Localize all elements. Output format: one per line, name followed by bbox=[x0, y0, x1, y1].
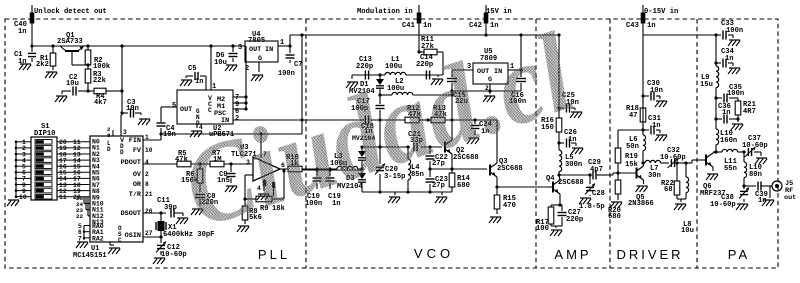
wire Q6 collector node bbox=[713, 150, 718, 153]
capacitor C18 bbox=[361, 116, 374, 137]
svg-text:R19: R19 bbox=[625, 153, 638, 161]
wire unlock detect vertical bbox=[31, 5, 33, 46]
resistor R19 bbox=[615, 144, 638, 173]
wire 0-15V vertical bbox=[642, 5, 644, 35]
svg-text:OSIN: OSIN bbox=[125, 232, 141, 240]
ground driver output bbox=[674, 204, 686, 210]
connector J5 RF out bbox=[772, 180, 796, 202]
svg-text:C43: C43 bbox=[626, 22, 639, 30]
svg-text:1n: 1n bbox=[652, 122, 661, 130]
inductor L5 bbox=[559, 143, 582, 175]
wire R5 to R7 bbox=[191, 162, 210, 165]
transistor Q1 2SA733 bbox=[57, 32, 88, 65]
svg-text:C28: C28 bbox=[592, 190, 605, 198]
resistor R6 bbox=[181, 164, 203, 192]
wire opamp output bbox=[280, 169, 288, 171]
ground right of C30 bbox=[655, 101, 667, 107]
ground right of C11 bbox=[176, 218, 188, 224]
svg-text:4R7: 4R7 bbox=[743, 108, 756, 116]
svg-text:10u: 10u bbox=[66, 80, 79, 88]
ground below R21 bbox=[731, 119, 743, 130]
ground below R15 bbox=[489, 217, 501, 223]
resistor R21 bbox=[735, 101, 756, 119]
wire Q4 collector node bbox=[557, 173, 590, 176]
inductor L9 bbox=[700, 63, 719, 98]
ground right of C31 bbox=[655, 135, 667, 141]
wire 9V bottom bus bbox=[450, 89, 521, 92]
svg-text:OR: OR bbox=[133, 181, 142, 189]
ground below R8 bbox=[237, 226, 249, 232]
resistor R15 bbox=[494, 187, 516, 214]
svg-text:G: G bbox=[258, 55, 262, 63]
ground below U1 bbox=[108, 242, 120, 254]
svg-text:Modulation in: Modulation in bbox=[357, 8, 413, 16]
wire 15V drop to FIN line bbox=[300, 35, 303, 134]
svg-text:8: 8 bbox=[145, 181, 149, 188]
svg-text:T/R: T/R bbox=[129, 191, 142, 199]
svg-text:FV: FV bbox=[133, 147, 142, 155]
capacitor C21 bbox=[408, 131, 423, 152]
ground below C8 bbox=[191, 209, 203, 215]
svg-text:26: 26 bbox=[145, 208, 153, 215]
svg-text:C7: C7 bbox=[294, 61, 302, 69]
svg-text:47: 47 bbox=[629, 112, 638, 120]
section label PA bbox=[728, 247, 750, 262]
wire emitter line bbox=[428, 167, 487, 170]
svg-text:21: 21 bbox=[145, 191, 153, 198]
transistor Q5 2N3866 bbox=[616, 163, 653, 208]
svg-text:1n: 1n bbox=[647, 22, 656, 30]
svg-text:FIN: FIN bbox=[129, 137, 141, 145]
capacitor C24 bbox=[471, 120, 493, 136]
wire Q5 emitter bbox=[643, 180, 645, 184]
wire R19 top bbox=[618, 130, 643, 144]
svg-text:1.8-5p: 1.8-5p bbox=[579, 203, 605, 211]
svg-text:55n: 55n bbox=[724, 165, 737, 173]
svg-text:OV: OV bbox=[133, 171, 142, 179]
svg-text:0-15V in: 0-15V in bbox=[644, 8, 678, 16]
svg-text:C42: C42 bbox=[469, 22, 482, 30]
wire OSIN bbox=[143, 235, 163, 238]
ground below C28 bbox=[579, 195, 591, 204]
capacitor C3 bbox=[122, 99, 141, 118]
capacitor C26 bbox=[557, 129, 576, 148]
wire amp emitter gnd bbox=[551, 224, 562, 228]
capacitor C16 bbox=[509, 70, 526, 106]
svg-text:OUT: OUT bbox=[249, 46, 261, 54]
ground below U4 bbox=[251, 75, 263, 81]
wire R3 to R4 node bbox=[86, 89, 89, 92]
ground right of C33 bbox=[728, 40, 740, 46]
wire U4 ground pin bbox=[258, 62, 260, 72]
resistor R11 bbox=[417, 36, 443, 75]
svg-text:C: C bbox=[118, 237, 122, 244]
wire Q2 base line bbox=[360, 120, 442, 149]
ground below C38 bbox=[736, 204, 748, 210]
capacitor C11 bbox=[157, 197, 183, 218]
svg-text:8: 8 bbox=[107, 132, 111, 139]
capacitor D6 10u bbox=[214, 44, 238, 67]
op-amp U3 TLC271 bbox=[231, 132, 285, 192]
ground right of C14 bbox=[431, 79, 443, 85]
wire 9V to VCO bbox=[451, 91, 453, 120]
section label PLL bbox=[258, 247, 290, 262]
ground below S1 bbox=[7, 200, 19, 206]
resistor R10 bbox=[286, 154, 302, 172]
resistor R3 bbox=[85, 69, 106, 91]
section label VCO bbox=[414, 246, 454, 261]
wire L9 bottom node bbox=[714, 96, 717, 120]
capacitor C41 bbox=[402, 13, 432, 31]
capacitor C17 bbox=[351, 93, 385, 121]
opamp pin4 ground bbox=[257, 179, 275, 200]
wire DSOUT bbox=[143, 211, 166, 214]
svg-text:1: 1 bbox=[212, 83, 216, 91]
ground below R1 bbox=[45, 72, 57, 78]
inductor L11 bbox=[716, 149, 744, 173]
wire pa output node bbox=[744, 185, 756, 187]
svg-text:22k: 22k bbox=[93, 77, 107, 85]
wire U2 OUT pin5 bbox=[161, 107, 177, 122]
capacitor C7 bbox=[278, 46, 302, 78]
ground below C24 bbox=[467, 138, 479, 144]
svg-text:out: out bbox=[784, 194, 796, 202]
svg-text:2SC688: 2SC688 bbox=[497, 165, 523, 173]
ground below R20 bbox=[610, 202, 622, 208]
varactor D2 MV2104 bbox=[352, 135, 376, 171]
svg-text:100n: 100n bbox=[726, 27, 743, 35]
svg-text:5: 5 bbox=[172, 102, 176, 110]
dashed section divider DRIVER/PA bbox=[696, 19, 698, 268]
resistor R20 bbox=[608, 173, 621, 221]
capacitor C29 bbox=[588, 159, 605, 180]
svg-text:220p: 220p bbox=[566, 216, 583, 224]
ground below U5 bbox=[483, 96, 495, 102]
svg-text:IN: IN bbox=[265, 46, 273, 54]
svg-text:680: 680 bbox=[608, 213, 621, 221]
ground Q6 emitter bbox=[706, 174, 718, 180]
label 15V in bbox=[486, 8, 512, 16]
resistor R4 bbox=[88, 88, 122, 107]
inductor L6 bbox=[626, 130, 646, 163]
wire VCO pickup to U1 FIN bbox=[143, 132, 302, 140]
wire driver supply drop bbox=[641, 35, 644, 132]
capacitor C35 bbox=[716, 84, 744, 103]
resistor R9 feedback bbox=[245, 169, 286, 213]
dashed section divider VCO/AMP bbox=[535, 19, 537, 268]
capacitor C33 bbox=[716, 20, 743, 40]
svg-text:10-60p: 10-60p bbox=[742, 142, 768, 150]
svg-text:160n: 160n bbox=[720, 137, 737, 145]
inductor L10 160n bbox=[716, 119, 737, 152]
resistor R13 bbox=[431, 105, 448, 123]
wire opamp inverting input bbox=[243, 175, 253, 201]
prescaler U2 uPB571 bbox=[172, 83, 239, 139]
varactor D1 MV2104 bbox=[349, 75, 384, 96]
svg-text:3: 3 bbox=[123, 129, 127, 136]
wire modulation vertical bbox=[418, 5, 420, 52]
wire VDD drop bbox=[120, 46, 123, 130]
wire Q3 emitter node bbox=[495, 177, 549, 189]
svg-text:AMP: AMP bbox=[554, 247, 591, 262]
ground below Q5 bbox=[636, 186, 648, 192]
capacitor C36 bbox=[716, 98, 740, 124]
svg-text:1n: 1n bbox=[722, 109, 731, 117]
wire pa supply bbox=[643, 33, 718, 36]
svg-text:10u: 10u bbox=[214, 59, 227, 67]
svg-text:VCO: VCO bbox=[414, 246, 454, 261]
wire PLL line into varactors bbox=[302, 167, 337, 170]
resistor R14 bbox=[449, 169, 470, 192]
svg-text:470: 470 bbox=[503, 202, 516, 210]
resistor R12 bbox=[405, 105, 422, 123]
svg-text:Q4: Q4 bbox=[546, 175, 555, 183]
inductor L4 bbox=[408, 147, 424, 192]
capacitor C32 trimmer bbox=[660, 147, 692, 168]
section label AMP bbox=[554, 247, 591, 262]
wire 5V rail bbox=[30, 44, 245, 47]
wire VCO second line bbox=[380, 93, 454, 96]
capacitor C13 bbox=[356, 56, 373, 80]
svg-text:4k7: 4k7 bbox=[94, 99, 107, 107]
transistor Q2 2SC688 bbox=[445, 120, 479, 162]
svg-text:2N3866: 2N3866 bbox=[628, 200, 654, 208]
svg-text:100k: 100k bbox=[93, 63, 111, 71]
svg-text:D: D bbox=[120, 149, 124, 156]
svg-text:MC145151: MC145151 bbox=[73, 252, 107, 260]
resistor R8 bbox=[242, 199, 262, 224]
wire 15V vertical bbox=[485, 5, 487, 35]
wire AMP to DRIVER base bbox=[605, 173, 618, 175]
wire PDOUT bbox=[143, 163, 177, 165]
svg-text:OUT: OUT bbox=[180, 106, 192, 114]
capacitor C5 bbox=[180, 65, 206, 90]
svg-text:C: C bbox=[208, 107, 212, 114]
svg-text:10n: 10n bbox=[650, 87, 663, 95]
dashed section divider PLL/VCO bbox=[305, 19, 307, 268]
crystal X1 bbox=[156, 213, 177, 237]
capacitor C39 bbox=[755, 182, 772, 206]
capacitor C4 bbox=[157, 123, 176, 140]
regulator U5 7809 bbox=[467, 48, 514, 92]
svg-text:PA: PA bbox=[728, 247, 750, 262]
svg-text:11: 11 bbox=[59, 194, 67, 201]
ground right of C25 bbox=[570, 112, 582, 118]
dashed section divider AMP/DRIVER bbox=[609, 19, 611, 268]
svg-text:2SA733: 2SA733 bbox=[57, 38, 83, 46]
wire U5 IN bbox=[508, 35, 523, 72]
capacitor C14 bbox=[416, 54, 438, 80]
svg-text:Unlock detect out: Unlock detect out bbox=[34, 8, 107, 16]
svg-text:DSOUT: DSOUT bbox=[121, 210, 141, 218]
resistor R5 bbox=[175, 150, 191, 167]
ground below D6 bbox=[225, 65, 237, 71]
wire U4 IN from 15V rail bbox=[278, 35, 292, 48]
capacitor C15 bbox=[447, 79, 468, 107]
ground tank bbox=[388, 197, 447, 203]
capacitor C20 trimmer bbox=[375, 147, 405, 192]
svg-text:10: 10 bbox=[19, 194, 27, 201]
resistor R7 bbox=[210, 150, 224, 167]
wire VCO bias line bbox=[302, 118, 497, 163]
label crystal frequency bbox=[163, 231, 214, 239]
resistor R17 bbox=[536, 205, 560, 233]
section label DRIVER bbox=[616, 247, 683, 262]
capacitor C2 bbox=[62, 74, 88, 96]
ground below U2 bbox=[190, 124, 202, 137]
svg-text:10-60p: 10-60p bbox=[710, 201, 736, 209]
label 0-15V in bbox=[644, 8, 678, 16]
ground left of C2 bbox=[55, 96, 67, 102]
varactor D3 MV2104 bbox=[337, 169, 366, 192]
capacitor C38 trimmer bbox=[710, 186, 749, 209]
svg-text:10n: 10n bbox=[126, 105, 139, 113]
svg-text:C5: C5 bbox=[188, 65, 197, 73]
wire U2 mode pins bbox=[233, 46, 248, 111]
svg-text:30n: 30n bbox=[648, 172, 661, 180]
capacitor C12 trimmer bbox=[156, 237, 187, 259]
wire R7 to opamp bbox=[224, 162, 252, 165]
capacitor C10 bbox=[305, 169, 322, 208]
wire AMP supply drop bbox=[557, 35, 560, 110]
regulator U4 7805 bbox=[238, 31, 284, 73]
capacitor C43 bbox=[626, 13, 656, 31]
capacitor C40 bbox=[14, 13, 34, 37]
svg-text:DRIVER: DRIVER bbox=[616, 247, 683, 262]
capacitor C28 trimmer bbox=[579, 173, 605, 211]
resistor R18 bbox=[626, 96, 646, 130]
transistor Q3 2SC688 bbox=[490, 158, 523, 177]
ground right of C37 bbox=[755, 158, 767, 164]
wire DRIVER to PA base bbox=[692, 160, 697, 163]
inductor L3 bbox=[330, 153, 362, 169]
svg-text:15V in: 15V in bbox=[486, 8, 512, 16]
svg-text:2k2: 2k2 bbox=[36, 61, 49, 69]
svg-text:2SC688: 2SC688 bbox=[558, 179, 584, 187]
svg-text:RA2: RA2 bbox=[92, 235, 104, 242]
wire U2 VCC pin1 bbox=[210, 46, 212, 90]
capacitor C22 bbox=[426, 147, 448, 169]
svg-text:10-60p: 10-60p bbox=[660, 154, 686, 162]
inductor L2 bbox=[387, 78, 413, 95]
svg-text:2: 2 bbox=[145, 171, 149, 178]
capacitor C37 trimmer bbox=[742, 135, 768, 157]
svg-text:C41: C41 bbox=[402, 22, 415, 30]
svg-text:1n: 1n bbox=[18, 28, 27, 36]
switch S1 DIP10 bbox=[15, 123, 90, 201]
capacitor C9 bbox=[217, 164, 236, 185]
svg-text:80n: 80n bbox=[749, 171, 762, 179]
ground below R17 bbox=[550, 230, 562, 236]
svg-text:1n: 1n bbox=[423, 22, 432, 30]
wire tank ground bus bbox=[362, 190, 452, 195]
capacitor C25 bbox=[559, 92, 579, 113]
svg-text:100: 100 bbox=[536, 225, 549, 233]
capacitor C1 bbox=[14, 46, 36, 66]
svg-text:3: 3 bbox=[238, 44, 242, 52]
svg-text:100n: 100n bbox=[727, 90, 744, 98]
svg-text:100n: 100n bbox=[278, 70, 295, 78]
inductor L8 bbox=[681, 161, 694, 235]
ground below C1 bbox=[19, 64, 31, 70]
resistor R1 bbox=[36, 46, 56, 70]
wire pa supply drop bbox=[714, 35, 717, 65]
resistor R2 bbox=[85, 46, 111, 71]
capacitor C8 bbox=[195, 193, 218, 207]
wire driver gnd bus bbox=[677, 199, 686, 202]
svg-text:10u: 10u bbox=[681, 227, 694, 235]
svg-text:300n: 300n bbox=[565, 161, 582, 169]
capacitor C23 bbox=[426, 169, 448, 192]
capacitor C27 bbox=[558, 205, 584, 226]
pll IC U1 MC145151 bbox=[73, 126, 153, 260]
wire VCO top line bbox=[352, 73, 443, 76]
transistor Q4 2SC688 bbox=[546, 175, 584, 205]
svg-text:7: 7 bbox=[78, 235, 82, 242]
capacitor C31 bbox=[643, 115, 661, 135]
svg-text:10: 10 bbox=[145, 147, 153, 154]
svg-text:DIP10: DIP10 bbox=[34, 130, 55, 138]
wire U2 IN line bbox=[233, 119, 302, 121]
svg-text:1n: 1n bbox=[725, 55, 734, 63]
inductor L10 80n bbox=[742, 152, 761, 188]
capacitor C42 bbox=[469, 13, 499, 31]
svg-text:1n: 1n bbox=[568, 136, 577, 144]
svg-text:68: 68 bbox=[664, 186, 673, 194]
svg-text:PLL: PLL bbox=[258, 247, 290, 262]
wire R2 R3 node bbox=[86, 63, 89, 69]
ground below C13 bbox=[346, 82, 358, 88]
svg-text:50n: 50n bbox=[626, 143, 639, 151]
wire Q5 collector node bbox=[641, 161, 644, 164]
wire N10-N13 bundle bbox=[76, 195, 90, 220]
wire U5 OUT bbox=[452, 70, 473, 77]
svg-text:22: 22 bbox=[76, 213, 83, 220]
wire 15V rail right bbox=[290, 33, 561, 36]
inductor L7 bbox=[643, 160, 669, 180]
inductor L1 bbox=[385, 56, 406, 75]
ground J5 bbox=[762, 186, 774, 206]
svg-text:1: 1 bbox=[145, 134, 149, 141]
ground below C9 bbox=[225, 186, 237, 192]
ground RA pins bbox=[76, 242, 88, 248]
resistor R22 bbox=[661, 161, 680, 199]
capacitor C19 bbox=[326, 169, 341, 208]
wire C13 left to ground bbox=[351, 75, 353, 79]
svg-text:15u: 15u bbox=[700, 81, 713, 89]
svg-text:7805: 7805 bbox=[248, 37, 265, 45]
transistor Q6 MRF237 bbox=[697, 152, 726, 198]
ground right of C34 bbox=[728, 68, 740, 74]
label Unlock detect out bbox=[34, 8, 107, 16]
wire Q4 emitter node bbox=[558, 203, 561, 206]
wire U5 ground pin bbox=[489, 84, 491, 94]
svg-text:39p: 39p bbox=[164, 204, 177, 212]
ground right of C3 bbox=[138, 119, 150, 125]
wire DIP common bus bbox=[15, 142, 17, 198]
wire Q2 emitter node bbox=[451, 162, 453, 169]
svg-text:1n: 1n bbox=[195, 78, 203, 86]
svg-text:D: D bbox=[107, 146, 111, 153]
svg-text:4p7: 4p7 bbox=[590, 166, 603, 174]
svg-text:680: 680 bbox=[457, 182, 470, 190]
capacitor C30 bbox=[643, 80, 663, 101]
svg-text:27p: 27p bbox=[432, 182, 445, 190]
svg-text:27: 27 bbox=[145, 230, 153, 237]
resistor R16 bbox=[541, 108, 562, 143]
svg-text:4: 4 bbox=[145, 159, 149, 166]
wire PLL output into VCO bbox=[302, 168, 362, 171]
